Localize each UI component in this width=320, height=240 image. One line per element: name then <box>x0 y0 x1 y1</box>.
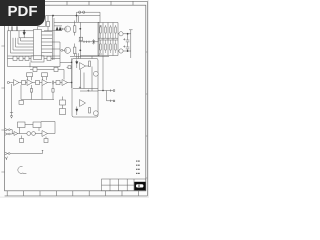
revision marks <box>136 161 139 175</box>
op-amp A1 <box>80 63 86 70</box>
junction dots <box>80 28 81 29</box>
resistor vertical <box>89 61 91 67</box>
diode D1 <box>23 31 26 38</box>
connector o <box>61 49 63 51</box>
right scan edge <box>147 0 149 198</box>
right rail of preamp <box>67 58 72 88</box>
small elements on wire <box>84 41 89 43</box>
resistor box <box>22 81 26 85</box>
top ruler line <box>0 0 147 2</box>
module edge circle lower <box>93 111 98 116</box>
right outer ruler line <box>146 1 148 196</box>
stacked boxes right <box>60 100 66 105</box>
emitter resistors upper <box>100 27 116 33</box>
op-amp U3B <box>62 80 68 86</box>
internal verticals <box>80 67 92 92</box>
IC top pin <box>38 16 46 30</box>
preamp top row boxes <box>8 57 61 59</box>
driver pin stubs <box>99 26 102 54</box>
input connector <box>7 81 9 83</box>
transistor Q1 <box>65 26 71 32</box>
op-amp U3A <box>42 80 48 86</box>
input chevrons <box>5 128 8 135</box>
resistor vertical <box>89 108 91 114</box>
speaker stub wires <box>98 59 113 92</box>
output bank <box>98 23 118 56</box>
diode dark upper <box>76 62 78 65</box>
driver feeds <box>77 16 81 59</box>
cap ovals <box>27 132 31 136</box>
logo box <box>134 182 145 191</box>
clamp symbol <box>18 167 27 174</box>
pin circle <box>79 11 81 13</box>
left ruler ticks <box>1 46 4 172</box>
right rail <box>129 30 133 58</box>
IC pins right <box>42 32 61 57</box>
diode dark lower <box>76 109 78 112</box>
bias box <box>79 37 82 40</box>
bottom scan edge <box>0 196 149 198</box>
junction dot <box>23 30 25 32</box>
right ruler ticks <box>146 52 148 178</box>
diode pair up arrows <box>56 27 61 30</box>
lower-left block boxes <box>18 122 26 128</box>
emitter resistors lower <box>100 44 116 50</box>
mid wires <box>73 89 98 92</box>
module box <box>72 59 98 118</box>
drop resistors <box>30 89 32 93</box>
cap <box>52 81 53 85</box>
op-amp U2A <box>14 80 20 86</box>
wire <box>54 26 62 31</box>
input circles <box>8 129 10 131</box>
title block <box>102 179 146 191</box>
ground bus <box>21 99 54 101</box>
output jack J2 <box>119 49 123 53</box>
nested horizontals into IC <box>8 41 34 56</box>
bottom ruler ticks <box>7 191 138 196</box>
module top feeds <box>70 56 109 59</box>
supply riser pair <box>52 16 80 60</box>
diode <box>14 132 18 136</box>
wire with ticks lower <box>5 152 8 155</box>
small box under bus <box>19 101 24 105</box>
op-amp A2 <box>80 100 86 107</box>
PDF badge <box>0 0 45 26</box>
op-amp U2B <box>27 80 33 86</box>
IC U1 <box>34 30 42 60</box>
arrow down <box>10 84 13 118</box>
module edge circle upper <box>93 71 98 76</box>
top supply bus <box>46 15 101 17</box>
node wire <box>8 30 34 32</box>
pin circle <box>83 11 85 13</box>
filter cap C1 <box>126 34 130 51</box>
mid wire <box>79 41 99 43</box>
op-amp U4 <box>42 131 48 137</box>
connector o <box>61 28 63 30</box>
bottom wire <box>8 42 61 67</box>
bottom ruler line <box>5 195 148 197</box>
jack wires <box>118 34 131 51</box>
feedback box <box>42 73 48 77</box>
cap polarity marks <box>123 38 125 47</box>
wire <box>19 31 34 38</box>
ground drops <box>21 84 53 99</box>
boxes below <box>20 139 24 143</box>
small mark <box>5 157 7 160</box>
wire <box>44 16 54 31</box>
transistor Q2 <box>65 47 71 53</box>
page background <box>0 0 149 198</box>
resistor pair below badge left <box>8 26 18 31</box>
output jack J1 <box>119 32 123 36</box>
feedback line <box>41 122 55 134</box>
connector stub with pins top right <box>77 12 101 22</box>
stub end marks <box>113 90 115 92</box>
feedback box <box>27 73 33 77</box>
driver pair diagonals <box>93 39 96 44</box>
plus marks <box>79 86 89 92</box>
top ruler ticks <box>67 1 133 5</box>
second row <box>30 62 72 79</box>
driver resistors <box>74 26 76 32</box>
frame border <box>5 5 146 191</box>
driver box <box>80 22 99 55</box>
left bus verticals <box>8 31 21 67</box>
resistor R below badge right <box>47 22 50 27</box>
